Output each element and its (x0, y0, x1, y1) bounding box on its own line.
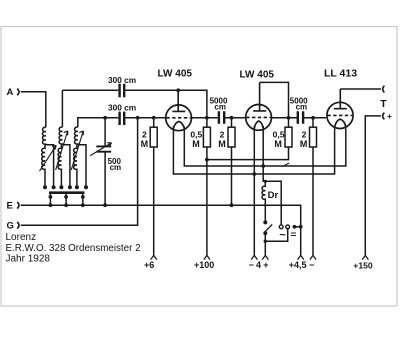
node dot G riser at grid rail (136, 116, 140, 120)
terminal T upper (383, 86, 385, 93)
wire = contact to +4,5 line (294, 226, 300, 228)
svg-text:cm: cm (110, 163, 122, 172)
svg-text:+100: +100 (194, 260, 214, 270)
wire bar stub 2 to E line (65, 194, 67, 205)
svg-text:cm: cm (296, 102, 308, 111)
wire L1 tap to bus (46, 145, 54, 188)
wire rail1 riser from coil L2 top (61, 90, 63, 127)
capacitor 300cm C1 (120, 84, 125, 97)
svg-text:2: 2 (142, 129, 147, 139)
node stub junction dots (49, 195, 85, 207)
node dot 2M R1 top (152, 116, 156, 120)
wire V2 left cathode leg down to -4 terminal (253, 126, 255, 255)
wire V2 anode loop to coupling junction (260, 82, 289, 117)
svg-text:T: T (380, 98, 387, 110)
wire V2 plate coupling junction to 5000cm C4 (272, 117, 327, 119)
V3 cathode dome (335, 119, 346, 126)
capacitor 300cm C2 (120, 112, 125, 125)
svg-text:=: = (291, 229, 297, 240)
node coil plug dots row (43, 185, 88, 189)
wire G riser (21, 118, 138, 225)
wire +100 feed (206, 160, 208, 256)
svg-text:LL 413: LL 413 (324, 67, 357, 79)
node dot 500cm at grid rail (103, 116, 107, 120)
svg-text:M: M (300, 139, 308, 149)
triode V2 LW405 envelope (246, 105, 272, 131)
V1 anode (172, 90, 185, 111)
svg-text:M: M (218, 139, 226, 149)
terminal fork +4,5 right (310, 255, 316, 259)
svg-text:E: E (7, 201, 13, 212)
variometer arrow L3 (71, 131, 83, 170)
wire E line (21, 205, 301, 255)
svg-text:0,5: 0,5 (190, 129, 202, 139)
svg-text:G: G (7, 221, 14, 232)
V2 anode (253, 82, 266, 111)
svg-text:M: M (192, 139, 200, 149)
switch lower contact (263, 231, 267, 235)
node A terminal (17, 89, 19, 96)
terminal fork +6 (151, 255, 157, 259)
svg-text:2: 2 (220, 129, 225, 139)
node dot 500cm at E line (103, 203, 107, 207)
plug = contact (293, 225, 297, 229)
wire A to first coil (21, 92, 46, 128)
V2 grid dashes (246, 116, 270, 118)
wire V3 anode to T terminal (340, 88, 381, 90)
wire T+ terminal to +150 (365, 116, 381, 256)
inductor L3 lower winding (74, 145, 77, 188)
wire bar stub 1 to E line (49, 194, 51, 205)
terminal fork -4 left (251, 255, 257, 259)
svg-text:cm: cm (214, 102, 226, 111)
choke Dr (262, 181, 265, 222)
node dot V2 right leg at rail B (261, 164, 265, 168)
resistor 0,5M R2 (206, 118, 208, 160)
svg-text:300 cm: 300 cm (108, 102, 136, 112)
node V1 anode junction on rail1 (176, 88, 180, 92)
svg-text:Jahr 1928: Jahr 1928 (6, 254, 51, 265)
triode V1 LW405 envelope (166, 105, 192, 131)
svg-text:LW 405: LW 405 (240, 69, 275, 80)
variometer arrow L2 (56, 131, 68, 170)
svg-text:300 cm: 300 cm (108, 75, 136, 85)
node junction dot (C4 / 2M grid V3) (311, 116, 315, 120)
terminal E (17, 202, 19, 209)
inductor L3 upper winding (74, 127, 77, 145)
capacitor 500cm variable (96, 146, 111, 151)
switch lever (265, 224, 273, 232)
svg-text:M: M (274, 139, 282, 149)
wire V2 right cathode leg to choke node (263, 126, 281, 225)
inductor L2 lower winding (58, 145, 61, 188)
terminal fork +100 (204, 255, 210, 259)
svg-text:0,5: 0,5 (273, 129, 285, 139)
socket ~ ring 1 (279, 225, 283, 229)
node junction dot (anode V2 / 0,5M / C4) (287, 116, 291, 120)
node dot 2M R3 at E line (230, 203, 234, 207)
wire rail1 top (through 300cm cap) (62, 90, 207, 118)
svg-text:+4,5 −: +4,5 − (289, 260, 315, 270)
triode V3 LL413 envelope (327, 102, 353, 128)
wire rail A (grid leak return) (207, 147, 289, 160)
node dot rail A at 0,5M bottom (205, 158, 209, 162)
V3 grid dashes (327, 114, 352, 116)
svg-text:A: A (7, 87, 14, 98)
svg-text:−4+: −4+ (249, 260, 271, 270)
svg-text:Dr: Dr (268, 190, 279, 201)
wire V1 plate coupling junction to 5000cm (192, 117, 246, 119)
capacitor 5000cm C3 (219, 111, 224, 123)
wire 500cm branch from grid rail (104, 118, 106, 146)
inductor L2 upper winding (59, 127, 62, 145)
svg-text:Lorenz: Lorenz (6, 232, 37, 243)
node dot link junction (264, 240, 267, 243)
terminal T lower (383, 113, 385, 120)
resistor 2M R5 (312, 118, 314, 256)
coil selector bar (49, 191, 85, 194)
svg-text:+150: +150 (353, 261, 373, 271)
wire L2 tap to bus (62, 145, 70, 188)
wire -4 minus prong (from V2 left leg) already drawn; tick mark artifact (282, 163, 289, 167)
capacitor 5000cm C4 (298, 111, 303, 123)
svg-text:+: + (387, 111, 392, 121)
node dot choke tap (264, 180, 267, 183)
terminal fork -4 right (262, 255, 268, 259)
resistor 2M R1 (grid leak V1) (153, 118, 155, 256)
wire L3 tap to bus (78, 145, 86, 188)
wire grid rail of tube V1 (from coil L3 top) (78, 118, 166, 127)
terminal fork +4,5 left (298, 255, 304, 259)
node junction dot (C3 / 2M grid V2) (230, 116, 234, 120)
variometer arrow L1 (40, 145, 57, 171)
inductor L1 upper winding (antenna coil) (42, 127, 45, 144)
svg-text:+6: +6 (144, 260, 154, 270)
switch upper contact (263, 220, 267, 224)
terminal G (17, 222, 19, 229)
wire switch to -4 terminal (264, 233, 266, 255)
wire V1 left cathode leg to rail C (173, 127, 334, 175)
V1 cathode dome (173, 121, 184, 128)
node dot V2 left leg at rail C (252, 172, 256, 176)
V1 grid dashes (166, 117, 190, 119)
V2 cathode dome (254, 121, 263, 128)
wire V1 right cathode leg to rail B (184, 127, 345, 167)
socket ~ ring 2 (286, 225, 290, 229)
svg-text:M: M (141, 139, 149, 149)
svg-text:E.R.W.O. 328 Ordensmeister 2: E.R.W.O. 328 Ordensmeister 2 (6, 243, 141, 254)
svg-text:2: 2 (302, 129, 307, 139)
wire bar stub 3 to E line (82, 194, 84, 205)
inductor L1 lower winding (42, 145, 45, 188)
terminal fork +150 (362, 255, 368, 259)
svg-text:~: ~ (279, 229, 286, 241)
wire switch link to ~ socket 2 (265, 229, 287, 241)
node junction dot (anode V1 / 0,5M / C3) (205, 116, 209, 120)
svg-text:LW 405: LW 405 (158, 68, 193, 79)
node dot on +4,5 line (299, 225, 303, 229)
V3 anode (334, 89, 347, 109)
wire 500cm to E line (104, 152, 106, 206)
variable arrow through 500cm (90, 143, 111, 156)
resistor 0,5M R4 (288, 118, 290, 127)
resistor 2M R3 (grid leak V2) (231, 118, 233, 205)
